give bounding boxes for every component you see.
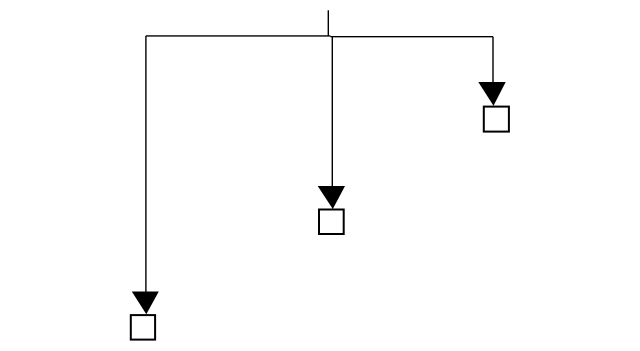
node box: left square <box>131 315 155 340</box>
wire: horizontal rail right segment <box>331 36 494 38</box>
wire: right vertical drop <box>492 37 494 83</box>
wire: middle vertical drop <box>331 37 333 187</box>
node box: middle square <box>319 210 344 235</box>
node box: right square <box>484 107 509 132</box>
wire: left vertical drop <box>145 36 147 292</box>
wire: top vertical stub <box>327 10 329 36</box>
arrowhead: middle <box>318 186 345 209</box>
wire: horizontal rail left segment <box>146 35 331 37</box>
arrowhead: left <box>132 292 159 315</box>
arrowhead: right <box>478 82 505 106</box>
